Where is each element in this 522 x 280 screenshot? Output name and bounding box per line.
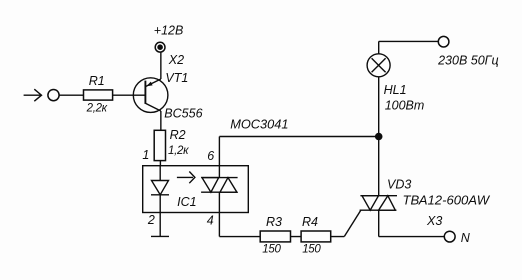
svg-text:230В 50Гц: 230В 50Гц bbox=[437, 53, 499, 67]
svg-text:IC1: IC1 bbox=[177, 195, 196, 209]
svg-text:X3: X3 bbox=[426, 214, 442, 228]
wire lamp to 230V connector bbox=[379, 41, 439, 53]
svg-text:150: 150 bbox=[302, 244, 321, 256]
ground bbox=[151, 235, 169, 237]
wire VD3 to X3 bbox=[379, 210, 445, 236]
resistor R4 bbox=[301, 215, 331, 256]
svg-text:R4: R4 bbox=[302, 215, 318, 229]
connector X2 bbox=[155, 42, 184, 67]
svg-text:BC556: BC556 bbox=[164, 107, 202, 121]
wire input to R1 bbox=[59, 94, 83, 96]
IC1 LED bbox=[151, 166, 169, 195]
resistor R1 bbox=[84, 74, 113, 115]
wire lamp to junction bbox=[378, 77, 380, 136]
wire emitter to X2 bbox=[160, 52, 162, 79]
svg-text:HL1: HL1 bbox=[384, 83, 407, 97]
svg-text:R2: R2 bbox=[170, 128, 186, 142]
svg-text:+12В: +12В bbox=[154, 23, 184, 37]
svg-text:1: 1 bbox=[142, 148, 149, 162]
input connector bbox=[48, 90, 59, 101]
optocoupler IC1 bbox=[143, 166, 249, 213]
junction bbox=[375, 133, 383, 141]
IC1 light arrow bbox=[177, 172, 195, 184]
wire IC1 pin 2 to ground bbox=[159, 195, 161, 237]
wire R4 to VD3 gate bbox=[331, 210, 361, 236]
svg-text:MOC3041: MOC3041 bbox=[230, 117, 288, 132]
input arrow bbox=[24, 89, 42, 101]
svg-text:R3: R3 bbox=[266, 215, 282, 229]
transistor VT1 bbox=[133, 71, 202, 121]
wire R1 to VT1 base bbox=[113, 94, 146, 96]
wire IC1 pin 6 up bbox=[218, 137, 220, 178]
svg-text:4: 4 bbox=[207, 213, 214, 227]
wire junction to VD3 bbox=[378, 137, 380, 196]
svg-text:2: 2 bbox=[147, 213, 155, 227]
lamp HL1 bbox=[367, 54, 424, 113]
resistor R3 bbox=[260, 215, 290, 256]
IC1 triac bbox=[201, 178, 238, 193]
wire R2 to IC1 pin 1 bbox=[159, 161, 161, 166]
svg-text:R1: R1 bbox=[89, 74, 105, 88]
svg-text:150: 150 bbox=[262, 244, 281, 256]
wire pin 6 to junction bbox=[219, 136, 378, 138]
connector X3 bbox=[426, 214, 455, 242]
wire collector to R2 bbox=[160, 111, 162, 130]
svg-text:VD3: VD3 bbox=[387, 178, 411, 192]
svg-text:100Вт: 100Вт bbox=[385, 99, 425, 113]
svg-text:6: 6 bbox=[207, 149, 214, 163]
wire IC1 pin 4 down bbox=[218, 192, 220, 236]
svg-text:ТВА12-600AW: ТВА12-600AW bbox=[403, 193, 491, 208]
triac VD3 bbox=[360, 178, 491, 211]
svg-text:2,2к: 2,2к bbox=[86, 102, 108, 114]
wire pin 4 to R3 bbox=[219, 236, 260, 238]
resistor R2 bbox=[154, 128, 189, 161]
svg-text:N: N bbox=[461, 231, 471, 245]
svg-text:X2: X2 bbox=[168, 53, 184, 67]
connector 230V bbox=[438, 36, 449, 47]
wire R3 to R4 bbox=[291, 236, 302, 238]
svg-text:VT1: VT1 bbox=[165, 71, 188, 85]
svg-text:1,2к: 1,2к bbox=[168, 145, 189, 157]
